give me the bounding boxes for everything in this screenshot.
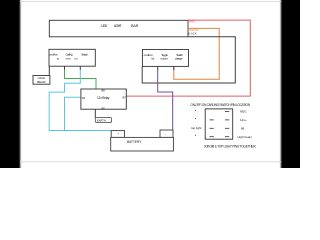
svg-text:BAR: BAR	[131, 24, 139, 28]
toggle switch pin 3 stub	[173, 66, 175, 70]
svg-text:BEAM: BEAM	[37, 80, 46, 84]
faint slide edge bottom	[20, 161, 281, 163]
table pin dash left row2	[210, 119, 214, 121]
faint slide edge top	[20, 1, 281, 3]
svg-text:BLACK: BLACK	[187, 32, 197, 36]
svg-text:turn: turn	[66, 56, 72, 60]
battery + terminal tab	[111, 131, 124, 138]
svg-text:LED: LED	[101, 24, 107, 28]
svg-text:LIGHT: LIGHT	[114, 24, 122, 28]
svg-text:86: 86	[241, 126, 245, 130]
svg-text:JOIN 86 & TOP LIGHT PINS TOGET: JOIN 86 & TOP LIGHT PINS TOGETHER.	[204, 145, 257, 149]
left row marker dot row4	[195, 135, 196, 136]
svg-text:High beam: High beam	[238, 135, 253, 139]
svg-text:12v+: 12v+	[240, 118, 247, 122]
wire: relay 85 to earth	[94, 109, 96, 118]
left letterbox bar	[0, 0, 20, 170]
table pin dash right row1 (NEG)	[225, 111, 229, 113]
left row marker dot row1	[195, 110, 196, 111]
svg-text:85: 85	[102, 106, 106, 110]
svg-text:top light: top light	[191, 126, 202, 130]
svg-text:30: 30	[82, 96, 86, 100]
svg-text:86: 86	[102, 89, 106, 93]
battery box	[111, 137, 174, 151]
earth box	[95, 118, 111, 123]
toggle switch pin 2 stub	[157, 66, 159, 70]
svg-text:to: to	[57, 56, 60, 60]
wire black: LED bar bottom to toggle switch pin 1	[142, 37, 235, 83]
wire cyan B: relay 30 to battery +	[65, 97, 81, 130]
wire orange: LED bar to toggle switch pin 3	[174, 28, 219, 79]
toggle switch box	[142, 50, 188, 67]
carling switch pin 3 stub	[79, 66, 81, 70]
wire purple: toggle pin 2 to battery -	[158, 70, 173, 130]
high beam box	[33, 76, 50, 85]
relay box	[81, 89, 126, 109]
left row marker dot row2	[195, 118, 196, 119]
table pin dash right row2 (12v+)	[225, 119, 229, 121]
wire: carling pin 1 to high beam	[48, 66, 50, 84]
svg-text:Switch: Switch	[81, 53, 88, 57]
right letterbox bar	[281, 0, 305, 170]
svg-text:EARTH: EARTH	[97, 118, 106, 122]
table pin dash left row3 (top light)	[210, 127, 214, 129]
battery - terminal tab	[160, 130, 173, 137]
svg-text:12v Relay: 12v Relay	[97, 96, 110, 100]
svg-text:colour: colour	[160, 57, 168, 61]
svg-text:87: 87	[123, 96, 127, 100]
LED light bar box	[49, 20, 188, 37]
svg-text:BATTERY: BATTERY	[127, 140, 142, 144]
svg-text:on: on	[75, 56, 79, 60]
svg-text:for: for	[152, 57, 155, 61]
table pin dash right row3 (86)	[225, 127, 229, 129]
svg-text:-: -	[165, 132, 166, 136]
wire red: LED bar to relay 87	[126, 20, 250, 96]
carling switch pin 2 stub	[64, 66, 66, 70]
table pin dash left row4	[210, 136, 214, 138]
svg-text:NEG: NEG	[240, 109, 247, 113]
wire green: carling pin 2 to relay 86	[65, 70, 97, 90]
pin location table box	[205, 109, 233, 139]
table pin dash right row4 (High beam)	[225, 136, 229, 138]
svg-text:+: +	[117, 132, 119, 136]
svg-text:change: change	[175, 57, 183, 61]
carling switch box	[49, 49, 95, 66]
wire cyan A: carling pin 3 to battery +	[49, 70, 111, 131]
svg-text:ON-OFF-ON CARLING SWITCH PIN L: ON-OFF-ON CARLING SWITCH PIN LOCATION	[191, 103, 251, 107]
